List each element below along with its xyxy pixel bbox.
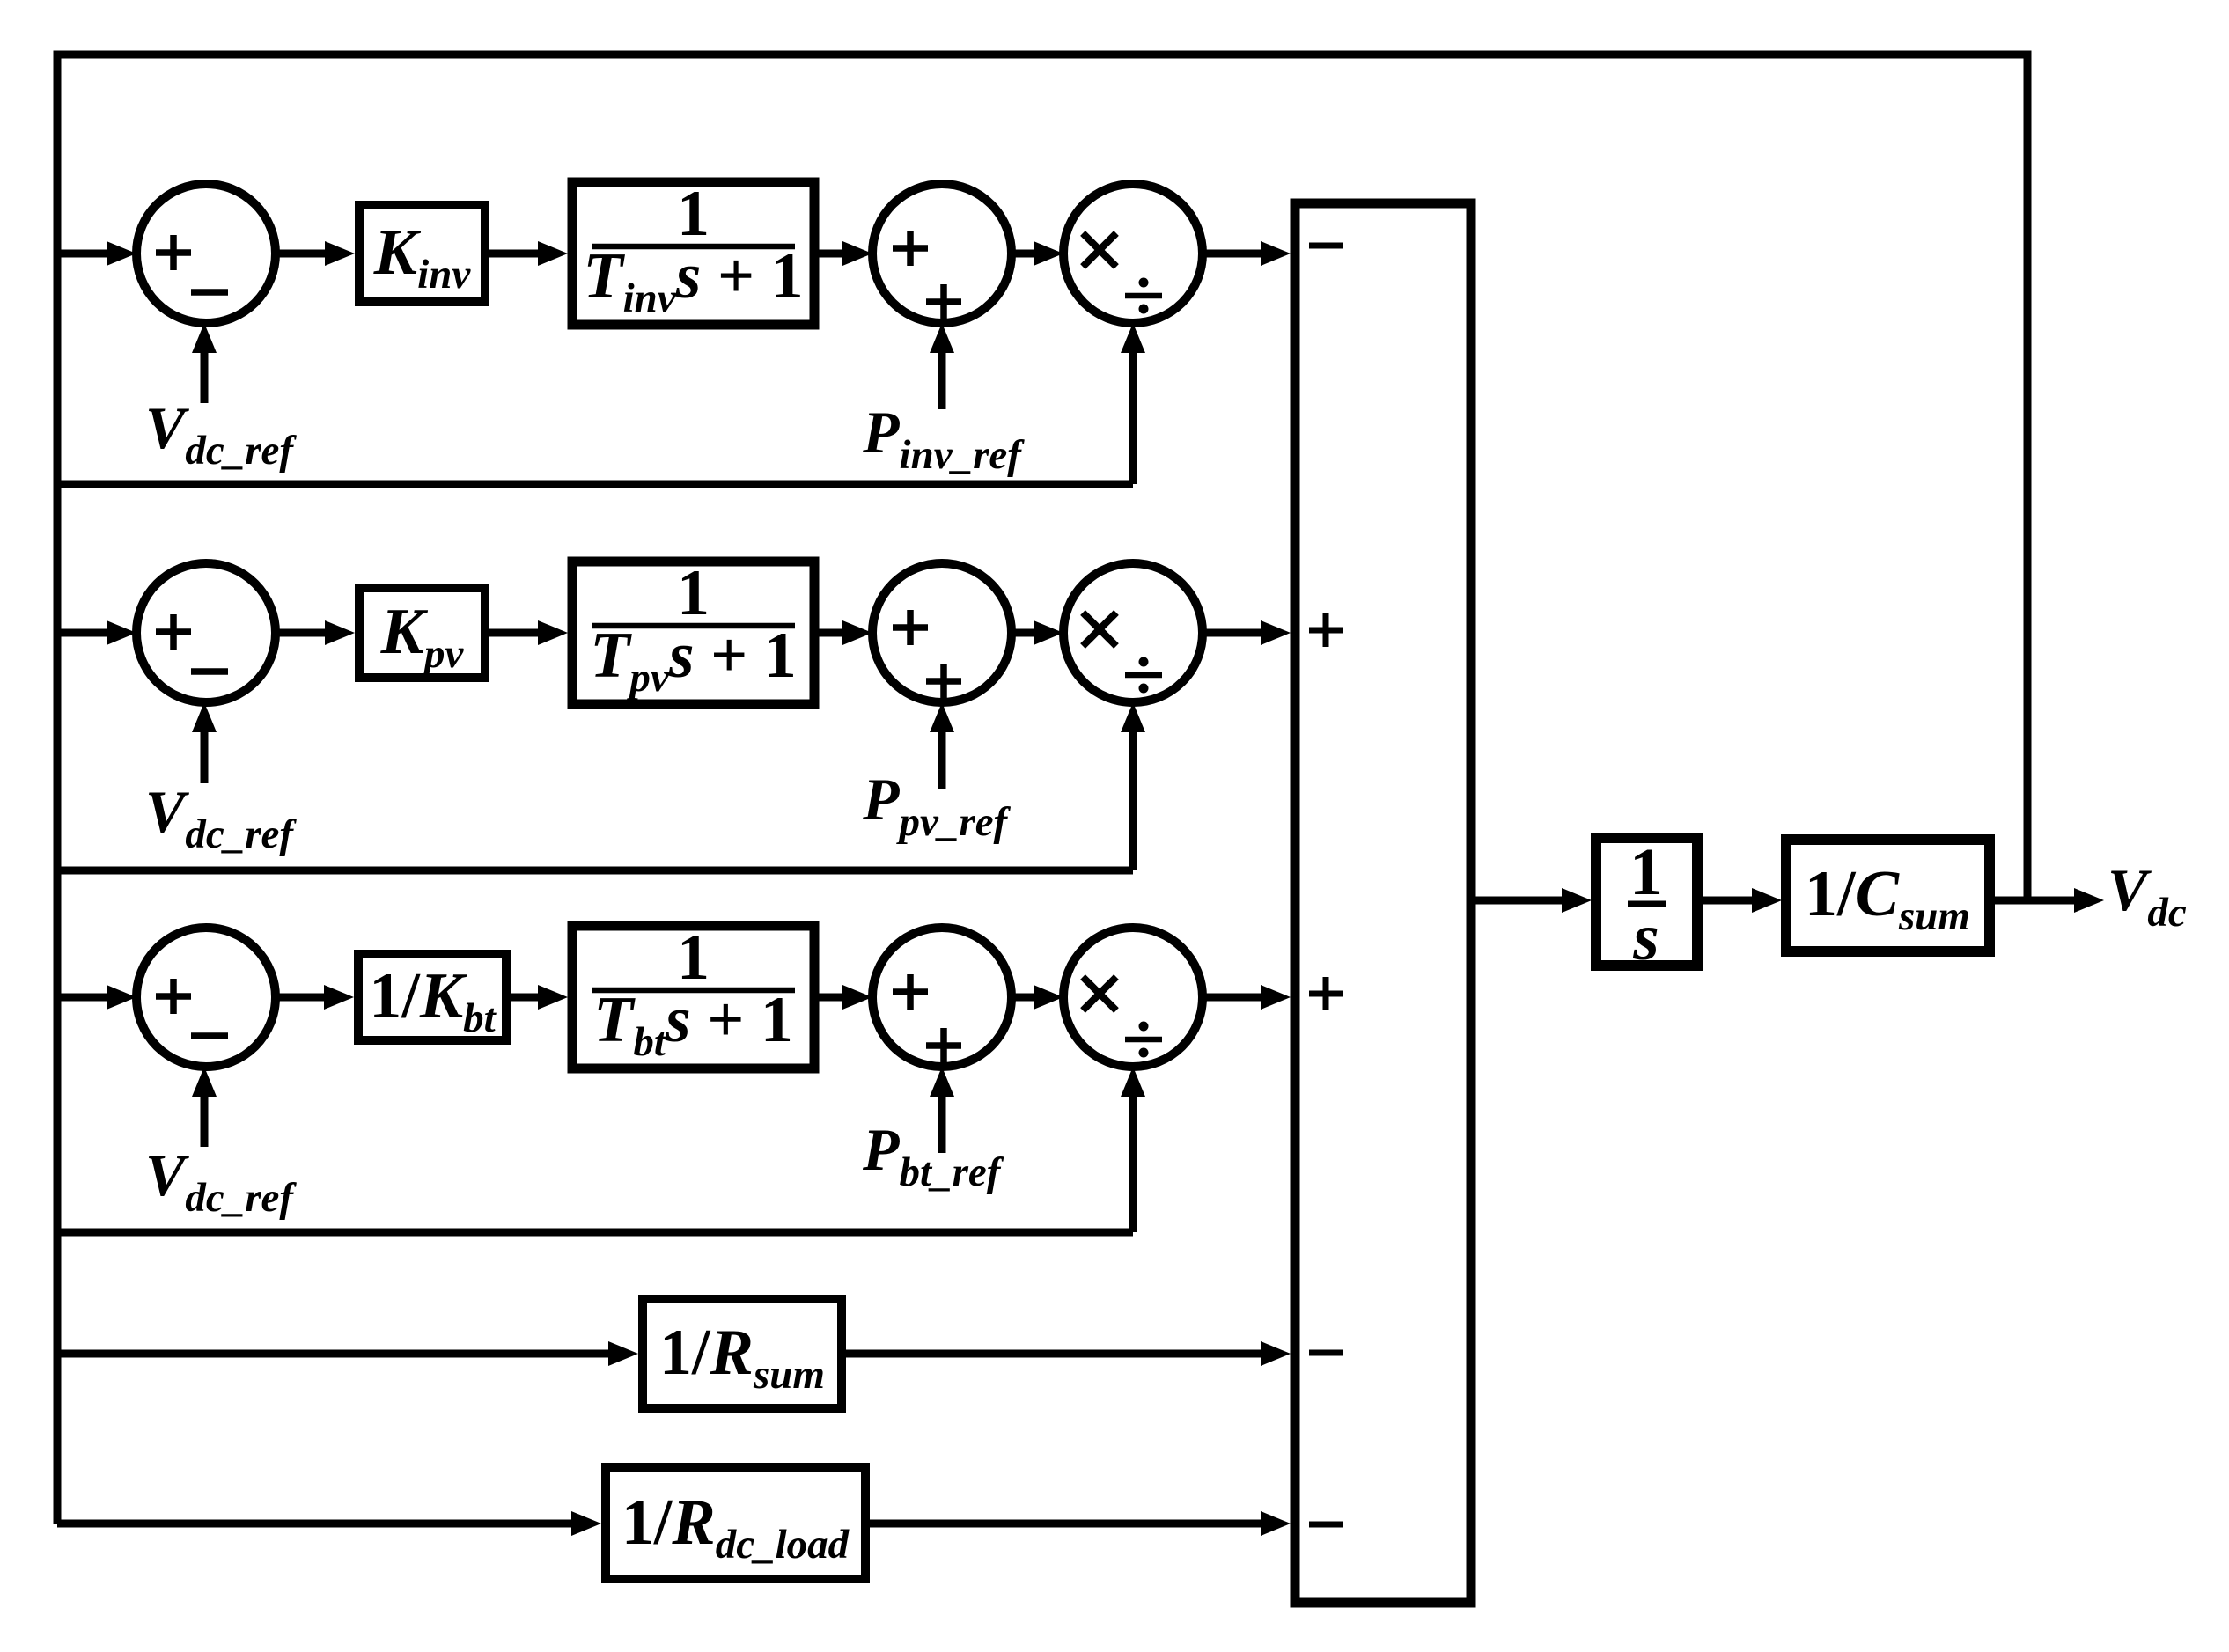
- wire: V_dc feedback into divider row inv: [57, 323, 1145, 484]
- node V_dc_ref input arrow (row pv): [192, 702, 217, 783]
- svg-text:s: s: [1632, 900, 1659, 974]
- wire: [276, 985, 354, 1010]
- wire: [819, 241, 872, 266]
- label V_dc_ref (row bt): [145, 1142, 297, 1221]
- wire: [1012, 241, 1063, 266]
- label V_dc_ref (row pv): [145, 778, 297, 857]
- wire: [1012, 620, 1063, 645]
- multiplier/divider block row bt: [1063, 928, 1203, 1067]
- node P_inv_ref input arrow: [930, 323, 954, 409]
- node P_pv_ref input arrow: [930, 702, 954, 789]
- summing junction S3 (+/-): [136, 928, 276, 1067]
- summing junction (+ +) row inv: [872, 184, 1012, 323]
- label sign - (R_sum input): [1309, 1350, 1343, 1356]
- summing junction S1 (+/-): [136, 184, 276, 323]
- wire: [57, 1511, 601, 1536]
- wire: V_dc feedback into divider row bt: [57, 1067, 1145, 1232]
- wire: [511, 985, 568, 1010]
- svg-text:1: 1: [1629, 835, 1663, 909]
- svg-text:1: 1: [677, 178, 710, 250]
- svg-text:Tpvs + 1: Tpvs + 1: [590, 620, 797, 701]
- svg-text:1: 1: [677, 921, 710, 994]
- wire: [1203, 620, 1291, 645]
- label sign - (R_dc_load input): [1309, 1522, 1343, 1528]
- wire: [870, 1511, 1291, 1536]
- wire: [1475, 888, 1592, 913]
- label V_dc: [2108, 856, 2187, 936]
- label P_bt_ref: [862, 1116, 1004, 1195]
- transfer function block 1/(T_pvs+1): [572, 557, 814, 704]
- label sign - (inverter input): [1309, 243, 1343, 249]
- svg-text:Tinvs + 1: Tinvs + 1: [583, 240, 803, 321]
- wire: feedback into sum junction S1: [57, 241, 136, 266]
- summing junction (+ +) row pv: [872, 563, 1012, 702]
- gain block 1/K_bt: [358, 954, 506, 1041]
- wire: output V_dc with junction to feedback: [1994, 888, 2104, 913]
- label P_pv_ref: [862, 766, 1012, 845]
- transfer function block 1/(T_invs+1): [572, 178, 814, 325]
- gain block K_inv: [359, 205, 485, 302]
- summing junction (+ +) row bt: [872, 928, 1012, 1067]
- svg-text:Tbts + 1: Tbts + 1: [593, 984, 793, 1065]
- wire: [819, 620, 872, 645]
- multiplier/divider block row pv: [1063, 563, 1203, 702]
- gain block 1/R_dc_load: [606, 1467, 865, 1579]
- summing block (vertical rectangle): [1295, 203, 1471, 1603]
- summing junction S2 (+/-): [136, 563, 276, 702]
- transfer function block 1/(T_bts+1): [572, 921, 814, 1068]
- wire: outer feedback loop (V_dc to inputs, left/top borders): [57, 55, 2027, 1524]
- svg-text:1: 1: [677, 557, 710, 629]
- wire: [1203, 241, 1291, 266]
- gain block 1/R_sum: [643, 1299, 842, 1408]
- wire: [489, 620, 568, 645]
- node V_dc_ref input arrow (row inv): [192, 323, 217, 403]
- wire: [276, 620, 355, 645]
- wire: [846, 1341, 1291, 1366]
- wire: [819, 985, 872, 1010]
- label sign + (battery input): [1309, 977, 1343, 1010]
- wire: [1702, 888, 1782, 913]
- wire: [489, 241, 568, 266]
- gain block K_pv: [359, 588, 485, 678]
- wire: feedback into sum junction S2: [57, 620, 136, 645]
- label V_dc_ref (row inv): [145, 394, 297, 474]
- wire: V_dc feedback into divider row pv: [57, 702, 1145, 870]
- wire: [1012, 985, 1063, 1010]
- wire: feedback into sum junction S3: [57, 985, 136, 1010]
- gain block 1/C_sum: [1786, 840, 1990, 951]
- wire: [57, 1341, 638, 1366]
- node P_bt_ref input arrow: [930, 1067, 954, 1153]
- label P_inv_ref: [862, 399, 1025, 478]
- label sign + (pv input): [1309, 613, 1343, 647]
- node V_dc_ref input arrow (row bt): [192, 1067, 217, 1147]
- wire: [1203, 985, 1291, 1010]
- wire: [276, 241, 355, 266]
- integrator block 1/s: [1596, 835, 1697, 974]
- multiplier/divider block row inv: [1063, 184, 1203, 323]
